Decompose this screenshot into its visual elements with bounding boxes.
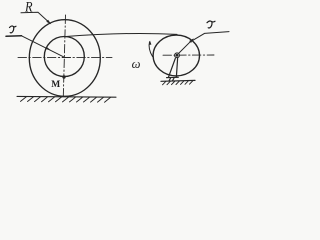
svg-text:M: M [51,80,60,90]
svg-text:R: R [24,0,32,15]
svg-text:ω: ω [132,57,141,71]
